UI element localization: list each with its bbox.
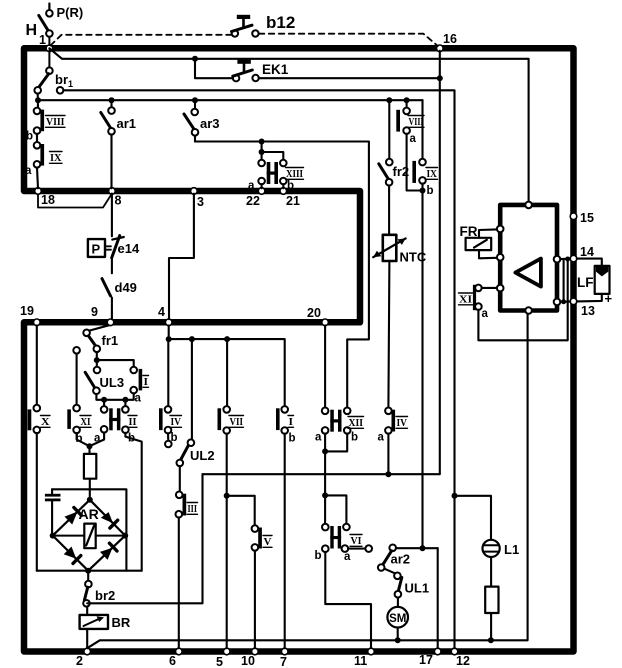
svg-text:P: P [92,242,101,257]
svg-text:a: a [248,180,255,192]
lamp L1 [483,540,520,557]
relay FR [460,224,497,258]
svg-text:21: 21 [286,194,300,208]
svg-text:13: 13 [581,304,595,318]
terminal 8 [109,188,122,208]
node junction ar3 [192,97,198,103]
diode top-right [101,512,118,528]
terminal 9 [91,305,114,326]
node junction VII to V [224,493,230,499]
wire node1 down to br1 [48,50,50,68]
svg-text:V: V [264,536,272,548]
wire y339.1 line [169,326,285,407]
svg-text:16: 16 [443,32,457,46]
contact II (bridging) [94,406,137,444]
wire y141.5 line from ar3 to XII column (via x368.9) [195,142,369,408]
svg-text:b: b [287,180,294,192]
wire br1 throw to long line y90.3 down to terminal 12 [63,90,454,648]
wire EK1 feed drop [195,59,233,78]
svg-text:6: 6 [169,654,176,668]
svg-text:19: 19 [20,304,34,318]
svg-text:18: 18 [41,193,55,207]
switch UL2 [177,339,215,466]
svg-text:b12: b12 [266,13,295,32]
svg-text:XIII: XIII [286,168,303,180]
svg-text:VII: VII [230,416,244,428]
contact XI (left) [67,405,91,445]
svg-text:IX: IX [427,168,438,180]
svg-text:fr1: fr1 [102,333,119,348]
contact XII (bridging) [315,326,364,444]
node junction XII merge [322,448,328,454]
node junction L1 on y640.3 [488,637,494,643]
contact IX (right) [412,100,437,197]
diode top-left [65,508,82,525]
svg-text:5: 5 [216,655,223,668]
svg-text:ar2: ar2 [391,552,411,567]
wire amp right pins ladder to 14/13 [560,257,570,305]
terminal 11 [354,648,374,668]
terminal 18 [35,188,55,207]
svg-text:15: 15 [580,211,594,225]
contact XI (right) at amp [459,285,497,320]
svg-text:IV: IV [171,416,182,428]
svg-text:P(R): P(R) [57,5,84,20]
terminal 15 [570,211,594,225]
main frame bus (staircase border with buses at y191 and y322) [24,48,574,651]
node junction fr1 out [94,357,100,363]
wire terminal 2 line y640.3 to amp bottom [87,314,527,648]
svg-text:LF: LF [577,275,594,290]
svg-text:br: br [55,72,68,87]
wire NTC down to IV right [388,261,389,408]
terminal 7 [280,648,288,668]
svg-text:II: II [129,416,137,428]
wire II-b route down to AR bottom line [125,433,141,571]
svg-text:XII: XII [349,417,364,429]
svg-text:UL3: UL3 [100,375,125,390]
wire XIII feed tee [262,142,284,160]
diode bottom-left [64,547,81,564]
node junction EK1/16-line [437,75,443,81]
svg-text:I: I [144,376,149,388]
contact IV (left) [159,339,182,447]
switch br1 [34,67,73,93]
contact I (middle) [276,406,296,648]
svg-text:III: III [188,503,198,515]
wire XII bottoms merge [325,434,347,452]
svg-text:4: 4 [158,305,165,319]
wire br2 junction to x202.5 riser [87,474,202,603]
terminal 14 [570,245,594,262]
svg-text:X: X [41,416,50,428]
node junction fr2 [386,97,392,103]
svg-text:14: 14 [580,245,594,259]
svg-text:9: 9 [91,305,98,319]
capacitor + AR enclosure [45,489,127,570]
terminal 12 [451,648,470,668]
dashed wire node1 to b12 to 16 [51,34,438,46]
svg-text:BR: BR [112,615,131,630]
node junction VIII-a/IX-b [420,188,426,194]
op-amp voltage regulator box [497,202,560,314]
svg-text:SM: SM [389,613,406,625]
terminal 6 [169,648,182,668]
node junction IV-a on y474.2 [385,471,391,477]
terminal 4 [158,305,172,326]
terminal 17 [419,648,441,667]
contact IV (right) [378,408,408,475]
wire VI-a stub to open contact [348,545,372,552]
wire XI-a to 13 ladder [478,302,567,341]
fuel gauge LF [577,259,613,306]
wire EK1 to 16-line [259,77,440,79]
wire XI-b and II-a merge to resistor [77,432,105,445]
wire AR bottom line [37,570,142,572]
svg-text:b: b [351,432,358,444]
wire node1 to line y58.8 to amp top [49,48,528,201]
terminal 13 [570,298,595,318]
svg-text:7: 7 [280,655,287,668]
svg-text:IV: IV [397,417,408,429]
contact VIII (right) [396,100,424,190]
svg-text:11: 11 [354,654,367,668]
wire node 3 jog to terminal 4 [169,194,194,320]
node junction II left feed [101,397,107,403]
wire: loop under bus linking terminals 18 and 8 [38,194,112,208]
svg-text:UL2: UL2 [190,448,215,463]
contact I (by UL3) [130,367,148,405]
svg-text:a: a [410,133,417,145]
terminal 22 [246,188,265,208]
switch ar2 [378,545,438,574]
node junction L1 branch on br1 line [452,493,458,499]
svg-text:VIII: VIII [409,116,424,128]
svg-text:VIII: VIII [46,116,65,128]
terminal 1 [39,33,53,52]
resistor (field winding feed) [84,446,96,500]
node junction SM on y640.3 [395,637,401,643]
node junction VIII chain top [35,97,41,103]
node junction ar1 [109,97,115,103]
svg-text:XI: XI [459,294,472,306]
relay coil inside bridge [84,524,95,549]
svg-text:XI: XI [81,416,91,428]
node junction II right feed [122,397,128,403]
wire XII merged down [324,451,326,495]
svg-text:I: I [289,416,294,428]
svg-text:a: a [344,551,351,563]
switch fr1 (changeover) [73,325,118,353]
terminal 21 [280,188,300,208]
svg-text:12: 12 [456,654,470,668]
switch EK1 [233,60,289,82]
svg-text:ar1: ar1 [117,116,137,131]
svg-text:b: b [427,185,434,197]
svg-text:1: 1 [39,33,46,47]
terminal 10 [241,648,258,668]
node junction resistor top [87,443,93,449]
svg-text:2: 2 [76,654,83,668]
resistor NTC [373,235,427,265]
switch ar3 [184,100,220,141]
contact V [252,525,272,648]
svg-text:b: b [289,433,296,445]
contact VIII (left chain) [26,108,65,143]
resistor below L1 [485,557,498,640]
svg-text:a: a [315,432,322,444]
switch d49 [102,279,137,320]
svg-text:a: a [135,393,142,405]
svg-text:8: 8 [115,194,122,208]
svg-text:VI: VI [351,535,362,547]
switch br2 [83,571,115,607]
svg-text:a: a [25,165,32,177]
node junction VIII right [404,97,410,103]
terminal 3 [191,188,204,209]
svg-text:3: 3 [197,195,204,209]
node junction UL2 feed [189,336,195,342]
svg-text:e14: e14 [118,241,140,256]
terminal 16 [437,32,457,52]
wire IX-b down to ar2 net [421,184,423,549]
node junction XIII tee [259,149,265,155]
svg-text:H: H [26,22,38,39]
switch P(R) [39,4,83,46]
svg-text:EK1: EK1 [262,62,289,77]
contact III [176,466,198,648]
diode bottom-right [100,543,117,560]
motor SM [387,597,408,640]
wire fr1 out tee to UL3 and contact I [97,352,134,367]
svg-text:17: 17 [419,653,433,667]
node junction VI feed [322,492,328,498]
svg-text:+: + [605,291,613,306]
svg-text:a: a [482,308,489,320]
relay BR [80,607,131,649]
terminal 5 [216,648,230,668]
svg-text:UL1: UL1 [405,581,430,596]
terminal 20 [307,306,328,326]
node junction IX-b line on ar2 net [420,545,426,551]
svg-text:a: a [378,432,385,444]
wire VI feed jog [325,495,346,524]
node junction t4 below [166,336,172,342]
switch b12 [232,13,296,37]
svg-text:b: b [315,550,322,562]
switch UL3 [85,367,124,394]
svg-text:1: 1 [68,79,73,89]
switch ar1 [101,100,136,188]
switch UL1 [394,573,429,598]
svg-text:ar3: ar3 [200,116,220,131]
terminal 19 [20,304,40,326]
svg-text:10: 10 [241,654,255,668]
wire feeds to II [104,400,125,406]
svg-text:L1: L1 [504,542,519,557]
svg-text:NTC: NTC [400,250,427,265]
wire ar2 net drop to terminal 17 [437,548,439,648]
terminal 2 [76,648,90,668]
AR bridge rectifier [50,497,129,574]
wire line y100.2 from chain to IX right column [38,99,423,101]
svg-text:b: b [26,131,33,143]
svg-text:br2: br2 [95,588,115,603]
svg-text:d49: d49 [115,280,137,295]
wire UL3/I bottoms merge [96,393,133,400]
contact VI (bridging) [315,524,363,563]
node junction VII feed [224,336,230,342]
wire VII to V jog [227,496,255,526]
switch e14 with P box [88,194,140,274]
contact X [28,326,50,571]
contact XIII (bridging) [248,160,304,192]
node junction x195 on y58.8 [192,56,198,62]
wire branch to L1 [455,496,492,540]
wire 16-line down and long horizontal y474.2 [203,51,440,474]
wire fr1 left throw down to XI left [76,354,78,405]
switch fr2 [379,100,409,235]
wire br1 to VIII chain [37,93,39,107]
svg-text:IX: IX [50,152,62,164]
contact VII [218,339,244,648]
svg-text:22: 22 [246,194,260,208]
wire VI-b down to terminal 11 [325,552,371,648]
svg-text:20: 20 [307,306,321,320]
contact IX (left chain) [25,134,62,189]
node junction XIII feed [259,139,265,145]
